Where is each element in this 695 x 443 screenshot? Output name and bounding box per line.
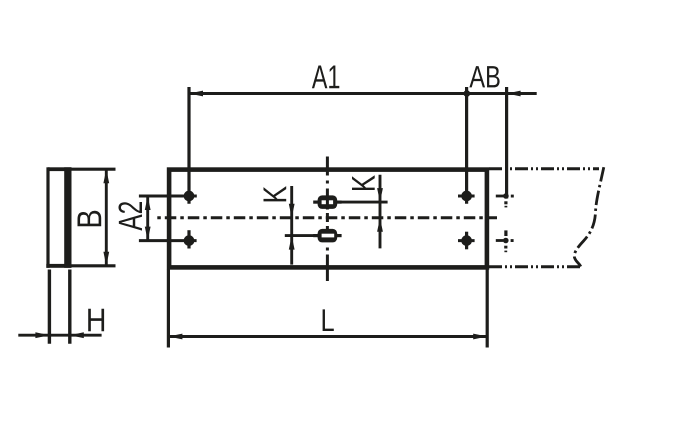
extension line L left bbox=[167, 270, 170, 348]
arrowhead AB right (outside) bbox=[507, 91, 521, 97]
label B (rotated) bbox=[78, 211, 102, 226]
dimension line A1/AB shared bbox=[189, 92, 537, 95]
horizontal centerline of plate bbox=[157, 216, 497, 219]
extension line AB right bbox=[505, 87, 508, 199]
arrowhead K left lower (outside, points up to slot axis) bbox=[289, 236, 295, 250]
arrowhead H right (outside, points left) bbox=[70, 332, 84, 338]
label A1 bbox=[312, 65, 339, 88]
hole lower-left bbox=[139, 230, 197, 248]
label K right (rotated) bbox=[352, 175, 375, 190]
phantom continuation line bottom bbox=[489, 265, 582, 268]
chain dimension dot A1/AB boundary bbox=[464, 90, 471, 97]
dimension line K left bbox=[290, 186, 293, 265]
hole lower-right bbox=[458, 232, 475, 250]
phantom continuation line top bbox=[489, 167, 599, 170]
arrowhead A1 left bbox=[189, 91, 203, 97]
label AB bbox=[469, 66, 499, 87]
extension line B top bbox=[72, 168, 116, 171]
extension line H right bbox=[68, 270, 71, 344]
label A2 (rotated) bbox=[118, 202, 142, 231]
plate outline (top view) bbox=[169, 170, 487, 268]
dimension line L bbox=[168, 335, 487, 338]
arrowhead K right lower (outside, points up to centerline) bbox=[377, 218, 383, 232]
vertical centerline of plate bbox=[326, 157, 329, 282]
arrowhead A2 bottom bbox=[145, 227, 151, 241]
extension line K left (lower slot axis) bbox=[285, 234, 318, 237]
arrowhead K right upper (outside, points down to slot axis) bbox=[377, 188, 383, 202]
dimension line B bbox=[105, 169, 108, 266]
label H bbox=[88, 309, 104, 332]
arrowhead K left upper (outside, points down to centerline) bbox=[289, 204, 295, 218]
arrowhead H left (outside, points right) bbox=[35, 332, 49, 338]
dimension line K right bbox=[379, 175, 382, 249]
slot upper (oblong hole) bbox=[313, 195, 341, 209]
arrowhead B bottom bbox=[103, 252, 109, 266]
extension line L right bbox=[486, 270, 489, 348]
arrowhead A2 top bbox=[145, 196, 151, 210]
hole upper-left bbox=[139, 87, 197, 204]
phantom hole centermark upper bbox=[496, 193, 514, 207]
hole upper-right bbox=[458, 87, 475, 204]
extension line B bottom bbox=[72, 264, 116, 267]
arrowhead L left bbox=[168, 334, 182, 340]
dimension line A2 bbox=[146, 196, 149, 241]
side view (end view of plate) bbox=[46, 167, 71, 267]
arrowhead L right bbox=[473, 334, 487, 340]
label K left (rotated) bbox=[263, 186, 286, 201]
slot lower (oblong hole) bbox=[313, 229, 341, 243]
dimension line H bbox=[18, 334, 101, 337]
arrowhead B top bbox=[103, 169, 109, 183]
break line (wavy cut) bbox=[574, 167, 603, 266]
extension line H left bbox=[48, 270, 51, 344]
extension line K right (upper slot axis) bbox=[337, 201, 387, 204]
phantom hole centermark lower bbox=[496, 230, 514, 252]
label L bbox=[323, 309, 334, 331]
